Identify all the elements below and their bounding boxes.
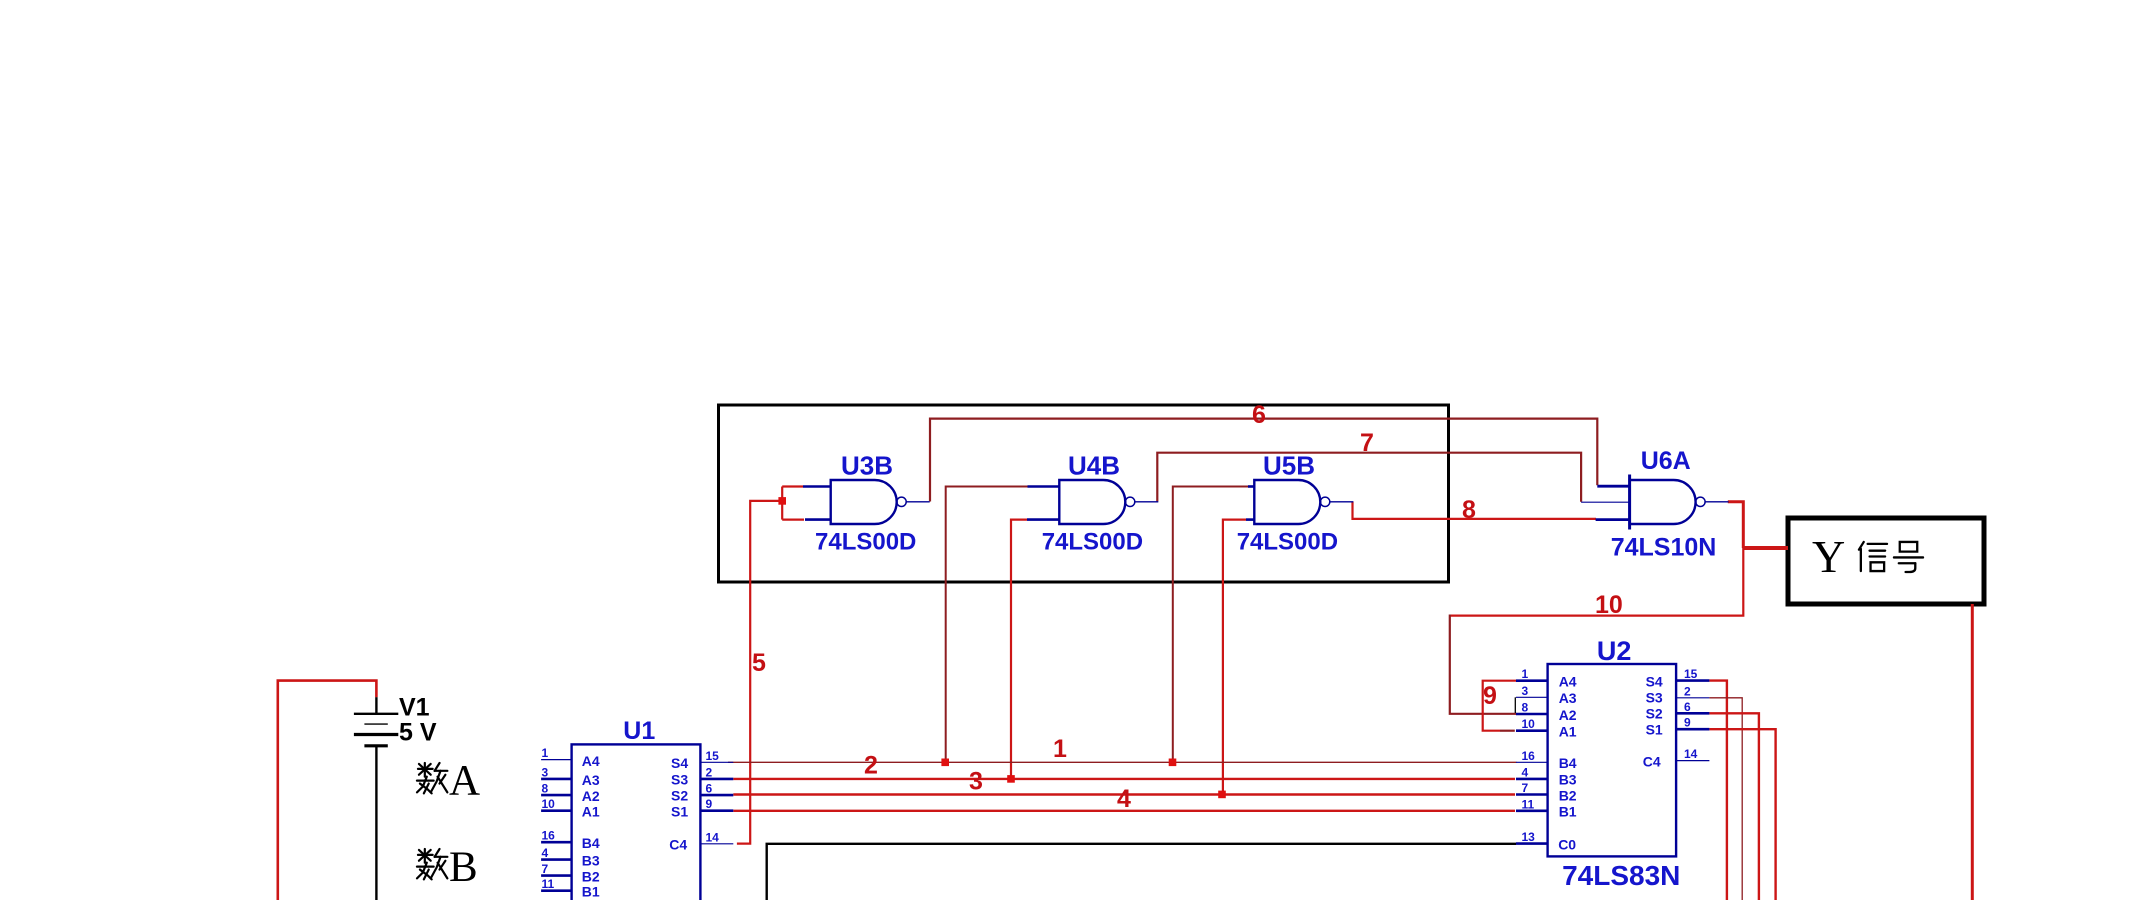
svg-text:S2: S2 xyxy=(1646,706,1663,722)
svg-text:A: A xyxy=(449,758,480,805)
svg-text:B1: B1 xyxy=(582,884,600,900)
svg-text:B2: B2 xyxy=(1559,787,1577,803)
svg-text:U2: U2 xyxy=(1597,636,1632,666)
svg-text:U4B: U4B xyxy=(1068,451,1120,481)
svg-text:3: 3 xyxy=(542,765,549,779)
svg-text:7: 7 xyxy=(1360,429,1374,457)
svg-text:74LS83N: 74LS83N xyxy=(1562,860,1680,891)
svg-text:V1: V1 xyxy=(399,694,430,722)
svg-text:10: 10 xyxy=(1595,591,1623,619)
svg-text:U6A: U6A xyxy=(1641,447,1691,475)
svg-text:U1: U1 xyxy=(623,717,655,745)
svg-text:Y: Y xyxy=(1812,531,1845,582)
svg-text:A2: A2 xyxy=(1559,707,1577,723)
svg-text:B3: B3 xyxy=(582,853,600,869)
svg-text:S1: S1 xyxy=(1646,722,1663,738)
svg-text:7: 7 xyxy=(542,862,549,876)
svg-text:1: 1 xyxy=(542,746,549,760)
svg-text:S3: S3 xyxy=(1646,689,1663,705)
svg-text:14: 14 xyxy=(706,830,720,844)
svg-text:C0: C0 xyxy=(1558,836,1576,852)
svg-text:4: 4 xyxy=(1117,785,1131,813)
svg-text:16: 16 xyxy=(542,829,556,843)
svg-text:74LS00D: 74LS00D xyxy=(1042,529,1143,556)
svg-text:8: 8 xyxy=(1522,701,1529,715)
svg-text:4: 4 xyxy=(1522,765,1529,779)
svg-text:3: 3 xyxy=(1522,684,1529,698)
svg-text:6: 6 xyxy=(1684,700,1691,714)
svg-text:A4: A4 xyxy=(1559,674,1577,690)
svg-text:U5B: U5B xyxy=(1263,451,1315,481)
svg-text:A1: A1 xyxy=(582,804,600,820)
svg-text:B2: B2 xyxy=(582,869,600,885)
svg-text:B3: B3 xyxy=(1559,772,1577,788)
svg-text:A3: A3 xyxy=(1559,690,1577,706)
svg-text:2: 2 xyxy=(706,765,713,779)
svg-text:S3: S3 xyxy=(671,772,688,788)
svg-text:74LS00D: 74LS00D xyxy=(815,529,916,556)
svg-text:10: 10 xyxy=(542,797,556,811)
svg-text:15: 15 xyxy=(1684,667,1698,681)
svg-text:A1: A1 xyxy=(1559,723,1577,739)
svg-text:C4: C4 xyxy=(669,836,687,852)
svg-text:5 V: 5 V xyxy=(399,719,437,747)
svg-text:11: 11 xyxy=(542,877,555,891)
svg-text:B: B xyxy=(449,844,478,891)
svg-text:11: 11 xyxy=(1522,797,1535,811)
svg-text:8: 8 xyxy=(542,782,549,796)
svg-text:A3: A3 xyxy=(582,772,600,788)
svg-text:U3B: U3B xyxy=(841,451,893,481)
svg-text:6: 6 xyxy=(1252,401,1266,429)
svg-text:2: 2 xyxy=(864,752,878,780)
svg-text:A4: A4 xyxy=(582,753,600,769)
svg-text:74LS10N: 74LS10N xyxy=(1611,534,1717,562)
svg-text:B1: B1 xyxy=(1559,804,1577,820)
svg-text:15: 15 xyxy=(706,749,720,763)
svg-text:10: 10 xyxy=(1522,717,1536,731)
svg-text:A2: A2 xyxy=(582,788,600,804)
svg-text:S1: S1 xyxy=(671,803,688,819)
svg-text:1: 1 xyxy=(1053,735,1067,763)
svg-text:3: 3 xyxy=(969,768,983,796)
svg-text:1: 1 xyxy=(1522,667,1529,681)
svg-text:B4: B4 xyxy=(582,835,600,851)
svg-text:13: 13 xyxy=(1522,830,1536,844)
svg-text:S2: S2 xyxy=(671,788,688,804)
svg-text:9: 9 xyxy=(706,797,713,811)
svg-text:B4: B4 xyxy=(1559,755,1577,771)
svg-text:7: 7 xyxy=(1522,781,1529,795)
svg-text:16: 16 xyxy=(1522,749,1536,763)
svg-text:9: 9 xyxy=(1684,716,1691,730)
svg-text:74LS00D: 74LS00D xyxy=(1237,529,1338,556)
svg-text:9: 9 xyxy=(1483,682,1497,710)
svg-text:5: 5 xyxy=(752,649,766,677)
svg-text:4: 4 xyxy=(542,846,549,860)
svg-text:S4: S4 xyxy=(671,755,688,771)
svg-text:S4: S4 xyxy=(1646,673,1663,689)
svg-text:2: 2 xyxy=(1684,684,1691,698)
svg-text:14: 14 xyxy=(1684,747,1698,761)
svg-text:6: 6 xyxy=(706,782,713,796)
svg-text:8: 8 xyxy=(1462,496,1476,524)
svg-text:C4: C4 xyxy=(1643,753,1661,769)
